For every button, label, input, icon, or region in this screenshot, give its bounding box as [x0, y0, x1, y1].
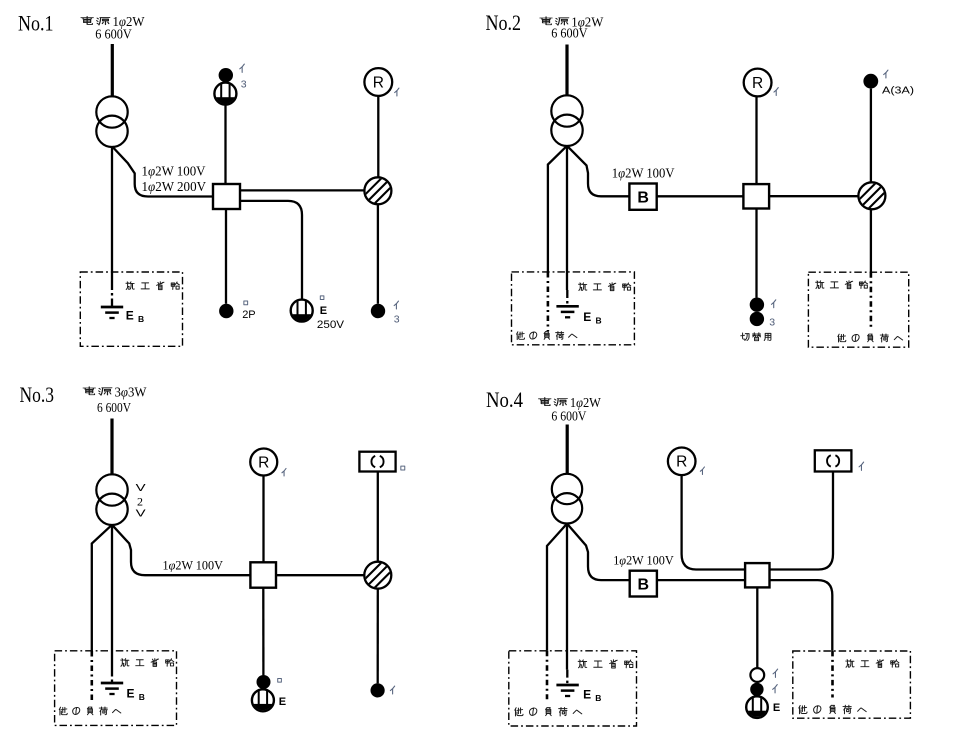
wire dash-dot to ground inside box: [111, 282, 113, 307]
svg-text:B: B: [637, 190, 649, 207]
construction-omitted box 施工省略: [80, 272, 182, 346]
outlet E: [252, 689, 274, 715]
switch dots イ3 切替用: [750, 298, 764, 312]
wire joint box to lamp (right): [240, 189, 365, 191]
panel No.1: [18, 10, 400, 346]
svg-text:3: 3: [769, 317, 775, 329]
svg-text:V: V: [136, 507, 146, 519]
svg-text:250V: 250V: [317, 319, 345, 331]
switch dot イ3 (bottom): [371, 304, 385, 318]
wire joint box down to switch stack: [756, 587, 758, 668]
wire R curve to joint box: [682, 475, 746, 569]
wire fan curve to joint box: [770, 472, 834, 570]
wire supply drop: [111, 44, 114, 97]
pilot lamp (white circle) イ: [750, 668, 764, 682]
svg-text:A(3A): A(3A): [882, 85, 914, 97]
svg-text:2P: 2P: [242, 309, 255, 321]
transformer T3: [96, 474, 127, 505]
outlet E 250V: [291, 300, 313, 326]
source label 電源 1φ2W 6600V: [81, 16, 93, 24]
ground E_B: [556, 684, 578, 687]
ground E_B: [101, 682, 123, 685]
wire right branch to breaker B: [567, 524, 630, 581]
wire transformer to ground (vertical): [111, 147, 113, 282]
svg-text:E: E: [583, 687, 591, 701]
wire dash-dot other loads: [547, 272, 550, 331]
construction-omitted box left 施工省略: [509, 651, 637, 726]
wire transformer to joint box (curve): [112, 147, 213, 197]
wire supply drop: [110, 419, 113, 476]
svg-text:3: 3: [394, 313, 400, 325]
svg-text:1φ2W 100V: 1φ2W 100V: [612, 166, 675, 181]
svg-text:B: B: [595, 693, 601, 703]
wire left branch to other loads: [547, 524, 567, 651]
svg-text:No.1: No.1: [18, 10, 54, 35]
svg-text:R: R: [373, 74, 384, 91]
label 他の負荷へ right: [799, 705, 866, 713]
wire R to joint box: [755, 96, 757, 184]
exhaust fan box ( ): [359, 452, 395, 472]
switch dot イ3 (top): [219, 68, 233, 82]
svg-text:6 600V: 6 600V: [551, 27, 587, 42]
lamp (hatched circle): [363, 560, 393, 590]
wire outlet to joint box: [224, 105, 226, 184]
svg-text:R: R: [752, 75, 763, 92]
svg-text:6 600V: 6 600V: [551, 409, 586, 424]
wire joint box down to switches: [755, 209, 757, 298]
lamp (hatched circle): [857, 181, 887, 211]
svg-text:B: B: [638, 577, 650, 594]
switch dot イ: [750, 683, 763, 696]
exhaust fan box ( ): [815, 450, 852, 471]
outlet (top, with bars): [214, 83, 236, 109]
label 他の負荷へ left: [515, 707, 582, 715]
switch dot 2P: [219, 304, 233, 318]
wire lamp down to switch イ3: [377, 204, 379, 303]
switch dot イ A(3A): [863, 74, 878, 89]
svg-text:E: E: [320, 305, 327, 317]
label 他の負荷へ: [59, 707, 121, 715]
joint box (square): [213, 184, 240, 209]
wire R to joint box: [262, 476, 264, 563]
joint box: [745, 563, 769, 587]
svg-text:E: E: [126, 309, 134, 323]
wire supply drop: [565, 45, 568, 97]
wire right branch to joint box: [112, 525, 250, 575]
transformer T4: [552, 474, 582, 504]
svg-text:No.2: No.2: [486, 10, 522, 35]
wire joint box to lamp: [276, 574, 365, 576]
panel No.4: [486, 387, 910, 726]
svg-text:6 600V: 6 600V: [95, 27, 132, 42]
svg-text:No.3: No.3: [20, 382, 55, 407]
joint box: [250, 562, 276, 587]
svg-text:3φ3W: 3φ3W: [115, 385, 148, 400]
label 他の負荷へ right: [838, 334, 903, 342]
label 他の負荷へ left: [517, 332, 577, 340]
svg-text:1φ2W 200V: 1φ2W 200V: [142, 179, 207, 194]
wire lamp down to other loads: [870, 209, 872, 272]
joint box: [743, 184, 769, 208]
room air conditioner R: [364, 68, 392, 96]
wire joint box down to 2P: [225, 209, 227, 304]
construction-omitted box left 施工省略: [512, 272, 635, 345]
source label 電源 1φ2W 6600V: [540, 17, 552, 25]
svg-text:B: B: [138, 314, 144, 324]
room air conditioner R: [744, 69, 772, 97]
transformer T1: [96, 96, 127, 127]
wire lamp down to switch イ: [377, 589, 379, 684]
breaker B: [629, 184, 656, 210]
wire left branch to other loads: [92, 525, 112, 651]
wire switch to lamp: [870, 89, 872, 183]
wire middle to ground: [566, 146, 568, 290]
svg-text:1φ2W 100V: 1φ2W 100V: [142, 164, 206, 179]
wire supply drop: [566, 425, 569, 475]
construction-omitted box right 施工省略: [808, 272, 908, 347]
svg-text:B: B: [596, 315, 602, 325]
wire fan to lamp: [377, 472, 379, 562]
svg-text:E: E: [583, 310, 591, 324]
wire middle to ground: [566, 524, 568, 670]
outlet E: [746, 696, 768, 721]
svg-text:R: R: [676, 454, 687, 471]
source label 電源 1φ2W 6600V: [539, 398, 551, 406]
panel No.3: [20, 382, 405, 725]
ground E_B: [101, 306, 123, 309]
wire joint box curve to outlet E 250V: [240, 201, 302, 300]
construction-omitted box right 施工省略: [793, 651, 911, 718]
svg-text:E: E: [279, 696, 286, 708]
svg-text:E: E: [773, 702, 780, 714]
svg-text:No.4: No.4: [486, 387, 523, 412]
wire B to joint box: [657, 195, 744, 197]
breaker B: [630, 571, 657, 597]
construction-omitted box 施工省略: [55, 651, 177, 726]
transformer T2: [551, 95, 582, 126]
wire right branch to breaker B: [567, 146, 629, 197]
switch dot ロ: [257, 675, 271, 689]
switch dot イ: [371, 683, 385, 697]
wire joint box to other loads (lower right): [770, 580, 833, 651]
wire joint box to lamp: [769, 195, 858, 197]
wire middle to ground: [111, 525, 113, 669]
lamp (hatched circle): [363, 176, 393, 206]
wire B to joint box: [657, 579, 745, 581]
svg-text:3: 3: [241, 79, 247, 91]
svg-text:E: E: [127, 687, 135, 701]
source label 電源 3φ3W 6600V: [83, 387, 95, 395]
svg-text:R: R: [258, 454, 269, 471]
svg-text:6 600V: 6 600V: [97, 401, 131, 416]
svg-text:1φ2W 100V: 1φ2W 100V: [613, 552, 674, 567]
svg-text:V: V: [136, 482, 146, 494]
panel No.2: [486, 10, 915, 347]
wire left branch to other loads: [548, 146, 567, 272]
svg-text:B: B: [139, 692, 145, 702]
wire joint box down to switch: [262, 588, 264, 676]
wire R to lamp: [377, 96, 379, 177]
room air conditioner R: [668, 448, 696, 476]
room air conditioner R: [250, 449, 277, 476]
svg-text:1φ2W 100V: 1φ2W 100V: [163, 558, 224, 573]
ground E_B: [556, 305, 578, 308]
